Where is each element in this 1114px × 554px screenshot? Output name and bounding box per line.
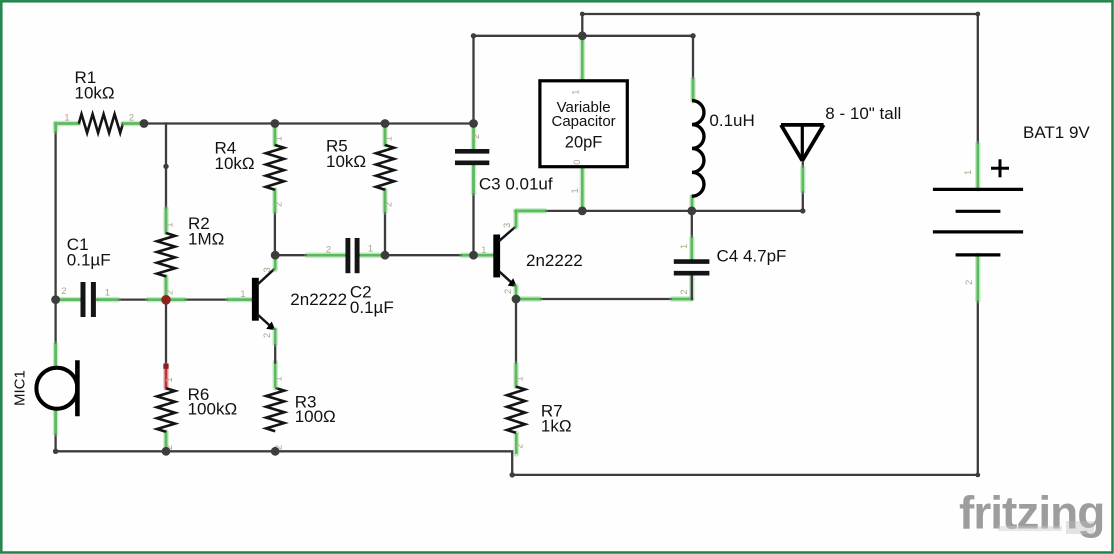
wire junction drop to upper rail bbox=[581, 14, 583, 36]
svg-text:2: 2 bbox=[383, 202, 393, 207]
svg-text:0.1µF: 0.1µF bbox=[350, 298, 394, 317]
wire coupling row C2 bbox=[275, 254, 493, 256]
svg-text:10kΩ: 10kΩ bbox=[215, 154, 255, 173]
capacitor C3 0.01uf bbox=[455, 134, 553, 194]
wire upper rail bbox=[474, 35, 694, 37]
svg-text:C3 0.01uf: C3 0.01uf bbox=[479, 175, 553, 194]
wire oscillator rail bbox=[516, 210, 803, 212]
svg-text:2: 2 bbox=[679, 289, 689, 294]
node R6 ground junction bbox=[162, 447, 171, 456]
svg-text:3: 3 bbox=[502, 223, 512, 228]
svg-text:1: 1 bbox=[64, 112, 69, 122]
svg-text:1: 1 bbox=[105, 287, 110, 297]
svg-text:1MΩ: 1MΩ bbox=[188, 229, 224, 248]
node C2-R5 junction bbox=[381, 251, 390, 260]
svg-text:2: 2 bbox=[262, 333, 272, 338]
node mic ground corner bbox=[53, 449, 58, 454]
node top rail right corner bbox=[975, 12, 980, 17]
battery BAT1 9V bbox=[933, 123, 1091, 285]
svg-text:1: 1 bbox=[571, 90, 581, 95]
wire C1 to Q1 base bbox=[98, 298, 252, 300]
wire battery bottom lead bbox=[975, 255, 981, 300]
node antenna corner bbox=[800, 208, 805, 213]
resistor R7 1kΩ bbox=[507, 376, 572, 448]
svg-text:2n2222: 2n2222 bbox=[290, 290, 347, 309]
svg-text:3: 3 bbox=[262, 267, 272, 272]
wire top supply rail bbox=[582, 14, 978, 145]
svg-text:1: 1 bbox=[368, 243, 373, 253]
svg-text:2: 2 bbox=[129, 112, 134, 122]
node C3-Q2 base junction bbox=[469, 251, 478, 260]
node top rail left corner bbox=[580, 12, 585, 17]
wire R2 bottom lead bbox=[165, 276, 167, 299]
resistor R1 10kΩ bbox=[64, 68, 142, 133]
node Q2 emitter junction bbox=[512, 295, 521, 304]
svg-text:2n2222: 2n2222 bbox=[526, 251, 583, 270]
node Q1 base junction red bbox=[161, 295, 171, 305]
wire Q2 emitter row bbox=[516, 298, 692, 300]
node R4 top junction bbox=[271, 119, 280, 128]
svg-text:8 - 10" tall: 8 - 10" tall bbox=[825, 104, 901, 123]
svg-text:10kΩ: 10kΩ bbox=[326, 152, 366, 171]
svg-text:0: 0 bbox=[572, 160, 582, 165]
svg-text:1: 1 bbox=[165, 222, 175, 227]
svg-text:1: 1 bbox=[515, 376, 525, 381]
wire inductor bottom lead bbox=[691, 196, 693, 211]
transistor Q2 2n2222 bbox=[481, 211, 583, 299]
wire bottom ground rail bbox=[56, 301, 978, 475]
node C1 input junction bbox=[51, 295, 60, 304]
svg-text:20pF: 20pF bbox=[565, 134, 603, 152]
svg-text:1: 1 bbox=[274, 376, 284, 381]
resistor R3 100Ω bbox=[266, 362, 336, 450]
svg-text:C4 4.7pF: C4 4.7pF bbox=[717, 247, 787, 266]
svg-text:Capacitor: Capacitor bbox=[551, 113, 615, 130]
wire base node to R6 bbox=[163, 300, 168, 389]
svg-text:1kΩ: 1kΩ bbox=[541, 417, 572, 436]
wire drop to inductor bbox=[692, 36, 694, 101]
antenna 8-10 inch bbox=[781, 104, 901, 160]
variable capacitor 20pF bbox=[540, 81, 627, 194]
node upper rail right end bbox=[690, 33, 695, 38]
svg-text:2: 2 bbox=[165, 290, 175, 295]
node upper rail left end bbox=[471, 33, 476, 38]
resistor R5 10kΩ bbox=[326, 136, 394, 207]
wire R2 top drop bbox=[165, 124, 167, 234]
wire R5 column bbox=[384, 124, 386, 256]
capacitor C1 0.1µF bbox=[61, 235, 110, 317]
svg-text:2: 2 bbox=[273, 202, 283, 207]
resistor R6 100kΩ bbox=[157, 377, 237, 450]
svg-text:2: 2 bbox=[61, 286, 66, 296]
svg-text:2: 2 bbox=[326, 244, 331, 254]
svg-text:1: 1 bbox=[570, 188, 580, 193]
wire R7 column bbox=[515, 299, 518, 454]
wire drop to C3 top node bbox=[472, 36, 474, 124]
node battery ground corner bbox=[975, 473, 980, 478]
node C3 top junction bbox=[469, 119, 478, 128]
node R1-R2 junction bbox=[140, 119, 149, 128]
microphone MIC1 bbox=[11, 360, 77, 416]
node Q1 collector junction bbox=[271, 251, 280, 260]
node wire joint small bbox=[163, 164, 168, 169]
wire R6 bottom lead bbox=[165, 432, 167, 452]
svg-text:1: 1 bbox=[679, 244, 689, 249]
svg-text:100Ω: 100Ω bbox=[295, 407, 336, 426]
node tank top junction bbox=[578, 207, 587, 216]
wire left column bbox=[56, 124, 79, 368]
svg-text:2: 2 bbox=[503, 289, 513, 294]
svg-text:1: 1 bbox=[164, 377, 174, 382]
svg-text:1: 1 bbox=[963, 170, 973, 175]
resistor R2 1MΩ bbox=[157, 214, 224, 295]
svg-text:2: 2 bbox=[471, 134, 481, 139]
wire bias rail row bbox=[123, 122, 474, 124]
svg-text:1: 1 bbox=[273, 136, 283, 141]
wire antenna lead bbox=[802, 161, 804, 211]
svg-text:2: 2 bbox=[964, 280, 974, 285]
svg-text:0.1uH: 0.1uH bbox=[709, 111, 754, 130]
wire variable capacitor bottom lead bbox=[581, 167, 583, 211]
svg-text:1: 1 bbox=[481, 245, 486, 255]
svg-text:10kΩ: 10kΩ bbox=[75, 84, 115, 103]
node R3 ground junction bbox=[271, 447, 280, 456]
inductor L1 0.1uH bbox=[692, 101, 755, 197]
svg-text:1: 1 bbox=[383, 136, 393, 141]
svg-text:100kΩ: 100kΩ bbox=[188, 400, 238, 419]
svg-text:BAT1 9V: BAT1 9V bbox=[1023, 123, 1090, 142]
wire variable capacitor top lead bbox=[581, 36, 583, 81]
fritzing watermark bbox=[959, 487, 1104, 539]
svg-text:0.1µF: 0.1µF bbox=[67, 251, 111, 270]
transistor Q1 2n2222 bbox=[240, 255, 347, 362]
wire R4 column bbox=[274, 124, 276, 256]
svg-text:2: 2 bbox=[515, 444, 525, 449]
node R5 top junction bbox=[381, 119, 390, 128]
node tank right junction bbox=[687, 207, 696, 216]
svg-text:1: 1 bbox=[240, 289, 245, 299]
wire C3 column bbox=[471, 127, 477, 256]
node ground step corner bbox=[510, 472, 515, 477]
wire C1 left lead bbox=[56, 298, 81, 300]
resistor R4 10kΩ bbox=[215, 136, 285, 207]
wire battery top lead bbox=[975, 144, 981, 189]
node supply junction bbox=[578, 31, 587, 40]
capacitor C4 4.7pF bbox=[674, 244, 787, 295]
wire C4 column bbox=[691, 211, 693, 299]
capacitor C2 0.1µF bbox=[326, 238, 394, 317]
svg-text:MIC1: MIC1 bbox=[11, 370, 28, 406]
